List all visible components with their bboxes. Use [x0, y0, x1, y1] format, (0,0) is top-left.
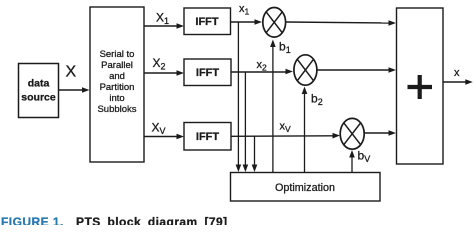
- svg-text:b1: b1: [279, 40, 291, 56]
- wire x2 from IFFT2 to multiplier M2: [231, 69, 293, 75]
- svg-text:x2: x2: [257, 59, 268, 73]
- multiplier M2: [294, 55, 317, 85]
- wire XV to IFFT3: [144, 134, 184, 140]
- adder box: [397, 8, 444, 164]
- tap wire from x2 down to Optimization: [243, 73, 249, 173]
- output wire x: [443, 79, 473, 85]
- svg-text:IFFT: IFFT: [196, 131, 219, 143]
- IFFT box U3: [184, 123, 231, 151]
- svg-text:Optimization: Optimization: [275, 182, 335, 194]
- svg-text:b2: b2: [311, 91, 323, 107]
- multiplier M3: [340, 118, 364, 149]
- svg-text:Partition: Partition: [100, 82, 135, 93]
- wire X1 to IFFT1: [144, 23, 184, 29]
- svg-text:X1: X1: [156, 11, 169, 27]
- svg-text:Subbloks: Subbloks: [97, 104, 136, 115]
- svg-text:x1: x1: [239, 3, 250, 17]
- wire xV from IFFT3 to multiplier M3: [231, 133, 340, 139]
- tap wire from x1 down to Optimization: [236, 22, 242, 172]
- wire b2 up from Optimization to M2: [302, 87, 308, 173]
- svg-text:IFFT: IFFT: [196, 67, 219, 79]
- wire M1 to adder: [286, 20, 396, 26]
- svg-text:bV: bV: [358, 149, 371, 165]
- optimization box: [231, 173, 381, 202]
- svg-text:source: source: [21, 92, 56, 104]
- wire M2 to adder: [317, 67, 396, 73]
- svg-text:IFFT: IFFT: [195, 16, 218, 28]
- svg-text:X: X: [66, 64, 77, 81]
- svg-text:Parallel: Parallel: [101, 60, 133, 71]
- svg-text:X2: X2: [153, 56, 166, 72]
- wire X2 to IFFT2: [144, 70, 184, 76]
- svg-text:XV: XV: [152, 121, 166, 137]
- svg-text:into: into: [109, 93, 124, 104]
- wire x1 from IFFT1 to multiplier M1: [231, 19, 263, 25]
- tap wire from xV down to Optimization: [252, 136, 258, 172]
- svg-text:data: data: [28, 78, 50, 90]
- multiplier M1: [263, 7, 286, 37]
- wire data source to S/P box: [59, 87, 90, 93]
- IFFT box U1: [184, 8, 231, 35]
- wire M3 to adder: [364, 130, 396, 136]
- svg-text:and: and: [109, 71, 125, 82]
- svg-text:Serial to: Serial to: [100, 49, 135, 60]
- wire bV up from Optimization to M3: [349, 150, 355, 173]
- wire b1 up from Optimization to M1: [270, 40, 276, 173]
- svg-text:PTS block diagram [79]: PTS block diagram [79]: [76, 215, 228, 225]
- svg-text:FIGURE 1.: FIGURE 1.: [1, 215, 64, 225]
- svg-text:x: x: [454, 67, 460, 79]
- S/P partition box: [90, 7, 144, 162]
- svg-text:xV: xV: [280, 121, 292, 135]
- data source box: [19, 64, 59, 118]
- adder plus sign: [408, 75, 433, 99]
- IFFT box U2: [184, 59, 231, 86]
